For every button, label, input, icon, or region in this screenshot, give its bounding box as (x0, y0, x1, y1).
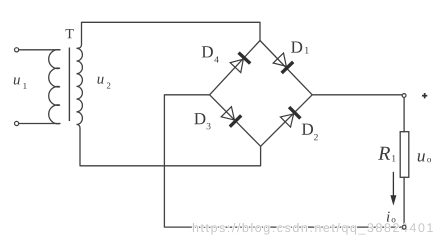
label uo (418, 153, 431, 162)
transformer T primary winding (49, 50, 60, 124)
resistor R1 (400, 132, 409, 178)
label u2 (97, 77, 110, 89)
label u1 (14, 78, 27, 89)
wire left vertex, down and along bottom (164, 95, 402, 227)
wire right vertex to + terminal (312, 94, 402, 96)
wire + terminal down to R1 (403, 98, 405, 132)
diode D4 (230, 53, 251, 73)
wire secondary bottom to bridge bottom vertex (80, 129, 261, 166)
output terminal + (top right) (402, 94, 406, 98)
label D4 (202, 46, 219, 62)
wire R1 bottom to bottom-right terminal (403, 177, 405, 225)
transformer T core (68, 48, 70, 122)
current arrow i_o (391, 172, 396, 205)
label io (387, 212, 396, 223)
wire top: secondary top to bridge top vertex (82, 22, 261, 40)
diode D1 (273, 52, 294, 73)
diode D2 (280, 107, 301, 128)
wire primary bottom lead (19, 123, 60, 125)
wire bridge diamond edges (210, 41, 313, 147)
diode D3 (221, 106, 242, 127)
label T (66, 29, 74, 38)
plus sign (422, 93, 427, 98)
label R1 (378, 147, 395, 162)
label D1 (291, 41, 309, 53)
transformer T secondary winding (77, 22, 83, 128)
label D3 (194, 113, 210, 129)
watermark (193, 223, 433, 235)
input terminal top-left (15, 48, 19, 52)
output terminal - (bottom right) (402, 225, 406, 229)
label D2 (302, 124, 318, 141)
input terminal bottom-left (15, 121, 19, 125)
wire primary top lead (19, 49, 60, 51)
